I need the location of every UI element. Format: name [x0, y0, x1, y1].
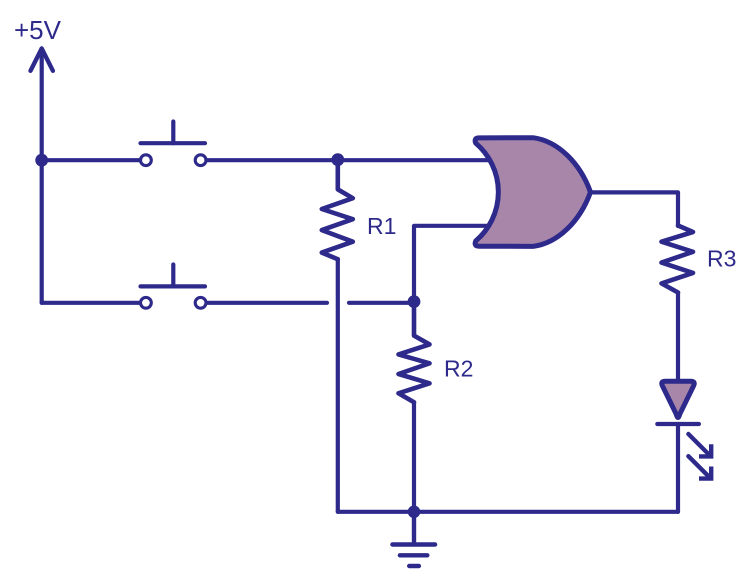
- node A: junction dot at +5V rail / top row: [35, 154, 48, 167]
- svg-text:R1: R1: [367, 213, 396, 239]
- pushbutton switch S2 (bottom): [141, 265, 207, 309]
- LED light arrow 2: [688, 456, 711, 478]
- svg-text:R3: R3: [707, 246, 736, 272]
- wire: second row from rail to switch S2: [42, 301, 139, 305]
- wire: LED cathode down to bottom rail: [676, 424, 680, 512]
- wire: bottom rail: [338, 510, 678, 514]
- svg-text:+5V: +5V: [14, 15, 62, 45]
- wire: left vertical rail from +5V arrow down to second row: [40, 50, 44, 303]
- power arrow (+5V supply): [31, 49, 53, 71]
- or-gate U1: [475, 138, 590, 247]
- node C: junction dot second row / R2 / gate input 2: [408, 295, 421, 308]
- resistor R2: [399, 303, 430, 402]
- resistor R1: [322, 160, 353, 259]
- ground: [392, 512, 435, 566]
- wire: top row from rail to switch S1: [42, 158, 139, 162]
- wire: R2 bottom lead down to bottom rail: [412, 402, 416, 512]
- pushbutton switch S1 (top): [141, 122, 207, 166]
- LED D1 cathode bar: [657, 422, 699, 426]
- wire: top row from S1 to OR gate input 1: [208, 158, 494, 162]
- wire: second row continuing after crossover to node C: [349, 301, 414, 305]
- LED light arrow 1: [688, 434, 711, 456]
- wire: R1 bottom lead down to bottom rail: [336, 259, 340, 512]
- LED D1 triangle: [662, 381, 695, 417]
- resistor R3: [662, 226, 694, 293]
- node D: junction dot bottom rail / ground: [408, 506, 421, 519]
- wire: from node C up and right to OR gate input 2: [414, 226, 492, 303]
- wire: second row from S2 toward R1 wire (stops before crossing): [208, 301, 327, 305]
- node B: junction dot at top row / R1: [331, 153, 344, 166]
- svg-text:R2: R2: [444, 356, 473, 382]
- wire: R3 to LED anode: [676, 293, 680, 381]
- wire: OR gate output to right rail: [591, 192, 679, 226]
